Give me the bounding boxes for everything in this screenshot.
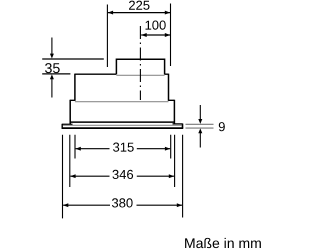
- dim 346 arrowheads: [70, 174, 75, 178]
- dim 380 arrowheads: [63, 203, 68, 207]
- dim 346 line: [70, 175, 174, 177]
- hood upper tier side walls: [75, 74, 169, 101]
- dim 35 upper extension line: [42, 58, 104, 60]
- dim 315 extension lines: [75, 135, 171, 159]
- dim 100 left arrowhead: [141, 33, 146, 37]
- duct (top box) of hood: [116, 59, 164, 74]
- dim 315 arrowheads: [75, 147, 80, 151]
- base plate flange tops: [62, 123, 182, 125]
- dim 35 up arrow: [51, 78, 53, 98]
- dim 35 down arrow: [51, 38, 53, 56]
- dim 35 label: [45, 63, 60, 73]
- base plate bottom: [62, 127, 184, 129]
- dim 380 extension lines: [63, 135, 183, 219]
- hidden edge under duct: [116, 74, 164, 76]
- dim 380 label: [112, 198, 133, 207]
- dim 315 line: [76, 148, 171, 150]
- dim 100 label: [146, 21, 166, 30]
- dim 380 line: [63, 204, 182, 206]
- hidden edge under upper tier: [75, 101, 169, 103]
- lower tier side walls: [70, 100, 174, 125]
- lower tier step top edges: [70, 99, 174, 101]
- base plate left end cap: [61, 124, 63, 129]
- dim 9 down arrow: [199, 105, 201, 120]
- dim 346 extension lines: [70, 135, 175, 187]
- dim 225 extension line left: [106, 5, 108, 68]
- dim 100 right arrowhead: [165, 33, 170, 37]
- dim 225 extension line right: [170, 4, 172, 67]
- dim 225 label: [129, 1, 150, 10]
- hood upper tier top edge: [75, 73, 169, 75]
- dim 315 label: [113, 143, 134, 152]
- frame rim line: [70, 121, 174, 123]
- dim 225 line: [108, 12, 170, 14]
- dim 100 line: [141, 34, 170, 36]
- centerline of duct: [139, 26, 141, 100]
- dim 9 up arrow: [199, 132, 201, 148]
- dim 35 lower extension line: [42, 73, 70, 75]
- base plate hidden mid line: [63, 124, 182, 126]
- dim 225 right arrowhead: [165, 11, 170, 15]
- dim 225 left arrowhead: [108, 11, 113, 15]
- dim 346 label: [113, 170, 134, 179]
- dim 9 extension lines: [186, 124, 214, 128]
- base plate right end cap: [182, 124, 184, 129]
- caption: [185, 238, 261, 248]
- dim 9 label: [219, 122, 225, 131]
